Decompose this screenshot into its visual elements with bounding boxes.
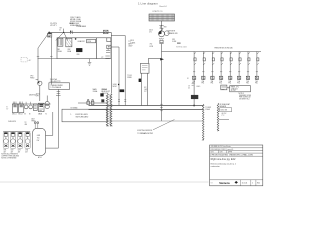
svg-text:200:5: 200:5 — [149, 29, 153, 31]
service switch — [101, 94, 104, 97]
svg-text:TO EX: TO EX — [127, 75, 131, 77]
wire: chain down — [161, 44, 163, 121]
feeder column 1 — [192, 52, 196, 81]
svg-text:40T: 40T — [11, 151, 14, 153]
transformer riser (hatched band) — [106, 94, 108, 127]
svg-text:600:5: 600:5 — [197, 86, 201, 88]
node J1 dot — [63, 32, 64, 33]
lineup meter 2 — [29, 105, 33, 109]
wire: bus B to drop2 — [203, 102, 218, 104]
fuse F1 on feeder — [103, 30, 108, 33]
svg-text:750: 750 — [37, 137, 40, 139]
breaker cell 2 (drawn-out) — [66, 38, 72, 47]
svg-text:1 Line diagram: 1 Line diagram — [138, 2, 158, 6]
lineup cell 2 — [19, 104, 24, 113]
wire: tap to relay — [148, 58, 161, 60]
page border bottom — [0, 181, 209, 183]
svg-text:DES: DES — [211, 152, 214, 154]
legend box — [62, 109, 107, 122]
svg-text:42 CKT: 42 CKT — [231, 90, 236, 92]
svg-text:GEN: GEN — [37, 135, 40, 137]
feeder column 6 — [237, 52, 241, 81]
wire: tank top right — [46, 134, 53, 136]
title bottom row divider — [210, 179, 263, 181]
meter M2 — [165, 31, 170, 36]
svg-text:52: 52 — [59, 29, 61, 31]
motor unit 3 — [17, 132, 22, 149]
motor unit 1 — [3, 132, 8, 149]
wire PT1 drop — [39, 86, 41, 102]
wire: relay drop 1 — [141, 73, 143, 105]
tick marks on drops — [118, 100, 126, 102]
motor unit 4 — [25, 132, 30, 149]
svg-text:TO REMAIN NOTE2: TO REMAIN NOTE2 — [137, 132, 153, 135]
service junction block — [102, 100, 104, 102]
svg-text:SWITCHBOARD: SWITCHBOARD — [76, 115, 89, 118]
feeder column 7 — [246, 52, 250, 81]
cable drop 2 (hatched) — [217, 103, 219, 131]
svg-text:PNL: PNL — [202, 83, 205, 85]
svg-text:PER SCHEDULE: PER SCHEDULE — [239, 97, 251, 99]
svg-text:CH4: CH4 — [25, 150, 28, 152]
lineup breaker (dark) — [38, 103, 44, 111]
title row 1 — [210, 147, 263, 149]
junction arrow on chain — [160, 58, 164, 61]
crossing ticks on chain — [160, 104, 162, 111]
wire up from transformer — [46, 96, 48, 102]
breaker (closed) on extension — [191, 95, 198, 99]
arrow to notes — [228, 87, 230, 88]
wire: drop to MV lineup — [38, 34, 48, 82]
svg-text:continuation: continuation — [211, 165, 220, 168]
service switch SW1 — [87, 101, 90, 104]
wire: bank column 1 extension — [193, 80, 195, 106]
svg-text:PNL: PNL — [246, 83, 249, 85]
svg-text:CHILLERS: CHILLERS — [8, 121, 16, 123]
wire: branch upper — [111, 36, 125, 106]
svg-text:BUS DUCT: BUS DUCT — [102, 91, 111, 93]
breaker cell 1 — [58, 38, 63, 46]
svg-text:E42: E42 — [257, 183, 260, 185]
lineup cell 1 — [12, 104, 17, 113]
svg-text:CH1: CH1 — [4, 150, 7, 152]
svg-text:CB1: CB1 — [57, 49, 60, 51]
aux dot on drop — [118, 84, 119, 85]
disconnect stack 2 — [107, 45, 111, 48]
svg-text:FUSE: FUSE — [172, 41, 176, 43]
title numbers — [240, 180, 242, 186]
node: bus junction — [193, 105, 195, 107]
junction J1 with fanout — [56, 29, 68, 41]
svg-text:40T: 40T — [18, 151, 21, 153]
svg-text:N1: N1 — [187, 78, 189, 80]
switchgear frame right — [97, 38, 111, 59]
wire: tap to distribution bank — [162, 51, 195, 53]
small equipment box — [221, 85, 227, 90]
meter aux tick — [177, 42, 181, 44]
relay cell — [87, 39, 96, 42]
feeder column 8 — [255, 52, 259, 81]
svg-text:1200A MAIN: 1200A MAIN — [76, 25, 87, 28]
disconnect stack 3 — [106, 48, 110, 52]
svg-text:COPPER THHN UNLESS: COPPER THHN UNLESS — [1, 156, 19, 158]
bus A (top) — [89, 105, 204, 107]
svg-text:EX: EX — [6, 107, 8, 109]
svg-text:NOTE 3: NOTE 3 — [239, 93, 245, 95]
relay box K1 — [141, 63, 150, 73]
svg-text:CB2: CB2 — [67, 49, 70, 51]
svg-text:40T: 40T — [25, 151, 28, 153]
svg-text:DISC SW: DISC SW — [221, 110, 228, 112]
svg-text:MCC1: MCC1 — [12, 114, 16, 116]
svg-text:51/50: 51/50 — [87, 41, 91, 43]
svg-text:PNL: PNL — [219, 83, 222, 85]
wire stub to corner — [36, 79, 38, 81]
disconnect stack 1 — [107, 38, 111, 42]
bus B (middle) — [89, 109, 204, 111]
feeder column 2 — [202, 52, 206, 81]
leader line — [153, 120, 175, 130]
title row 3 — [210, 152, 263, 154]
svg-text:MCC2: MCC2 — [18, 114, 22, 116]
disconnect stack 4 — [105, 56, 109, 58]
lineup bus wire — [12, 103, 50, 105]
wire: frame interconnect — [38, 58, 58, 60]
svg-text:UTILITY CO: UTILITY CO — [153, 11, 163, 13]
svg-text:CT: CT — [188, 86, 190, 88]
motor unit 2 — [10, 132, 15, 149]
title row 4 dark — [210, 155, 263, 157]
svg-text:2: 2 — [252, 183, 253, 185]
svg-text:TO MDP: TO MDP — [205, 107, 211, 109]
node A — [49, 32, 50, 33]
wire from S1 down-left — [50, 37, 52, 85]
svg-text:UTILITY: UTILITY — [50, 25, 57, 27]
tank valves — [34, 122, 36, 124]
svg-text:CTs: CTs — [149, 32, 152, 34]
svg-text:Sheet E4: Sheet E4 — [159, 5, 166, 8]
svg-text:4/0 CU: 4/0 CU — [222, 113, 227, 115]
fused cutout below meter — [160, 40, 163, 43]
lineup transformer — [45, 102, 49, 106]
svg-text:600AF: 600AF — [69, 22, 74, 25]
cable drop 1 (hatched) — [202, 104, 204, 140]
wire below T1 down to tank — [57, 89, 59, 148]
lineup meter 1 — [24, 105, 28, 109]
svg-text:480V MCC: 480V MCC — [29, 94, 38, 96]
svg-text:CH3: CH3 — [18, 150, 21, 152]
feeder column 3 — [211, 52, 215, 81]
disconnect box right — [220, 108, 232, 112]
main tank / generator body — [33, 128, 46, 155]
svg-text:PNL: PNL — [192, 83, 195, 85]
switchgear frame left — [57, 38, 97, 59]
future feed dashed box — [21, 58, 27, 62]
breaker cell 3 (closed) — [76, 48, 82, 51]
wire: main top feeder — [48, 31, 111, 33]
svg-text:NTS: NTS — [211, 182, 214, 184]
transformer box T1 — [49, 83, 70, 90]
svg-text:PT: PT — [102, 57, 104, 59]
wire: relay drop 2 — [147, 73, 149, 105]
instrument PT1 — [38, 81, 42, 85]
svg-text:PNL: PNL — [228, 83, 231, 85]
meter M — [159, 31, 165, 37]
utility termination structure — [149, 14, 175, 21]
svg-text:PNL: PNL — [211, 83, 214, 85]
aux device dot — [75, 38, 77, 40]
feeder column 5 — [229, 52, 233, 81]
svg-text:T2: T2 — [45, 114, 47, 116]
svg-text:TX: TX — [25, 122, 27, 124]
svg-text:PNL: PNL — [237, 83, 240, 85]
svg-text:CB3: CB3 — [76, 54, 79, 56]
feeder column 4 — [219, 52, 223, 81]
svg-text:CH2: CH2 — [11, 150, 14, 152]
ground symbol — [88, 59, 92, 66]
svg-text:EXISTING SERVICE: EXISTING SERVICE — [137, 130, 152, 132]
svg-text:FEEDERS SIZED: FEEDERS SIZED — [239, 95, 252, 97]
svg-text:3-500: 3-500 — [113, 84, 117, 86]
svg-text:CHK: CHK — [220, 152, 223, 154]
wire: motor header — [3, 131, 30, 133]
service fuse group — [91, 101, 94, 104]
svg-text:#4/0: #4/0 — [144, 89, 147, 91]
svg-text:FEEDER SECTIONS 480: FEEDER SECTIONS 480 — [215, 48, 233, 50]
title block frame — [210, 145, 263, 186]
wire: service run — [78, 102, 107, 104]
lineup cell 3 — [33, 104, 37, 111]
bus: bank top — [194, 51, 261, 53]
svg-text:40T: 40T — [4, 151, 7, 153]
fuse blob — [139, 79, 141, 82]
svg-text:MCM: MCM — [113, 86, 117, 88]
svg-text:10.2.04: 10.2.04 — [242, 183, 248, 185]
wire: tank bottom right — [46, 147, 59, 149]
switch S1 — [48, 33, 52, 37]
wire: service drop — [161, 21, 163, 31]
disconnect marks below T1 — [56, 91, 61, 95]
tie breaker (dark) between drops — [120, 89, 125, 92]
svg-text:ON SHEET E-4: ON SHEET E-4 — [239, 99, 250, 101]
bus C (lower, light) — [107, 120, 203, 122]
wire: riser A — [52, 112, 54, 135]
notes box — [230, 86, 251, 92]
svg-text:KWH MTR: KWH MTR — [168, 31, 176, 33]
meter wavy marks — [159, 38, 164, 39]
wire: riser right edge — [110, 32, 112, 93]
svg-text:Right one-line pg. E42: Right one-line pg. E42 — [211, 158, 236, 161]
svg-text:2.5": 2.5" — [144, 91, 147, 93]
stub line — [219, 118, 229, 120]
CT marks on extension — [192, 83, 194, 85]
svg-text:Siemens: Siemens — [219, 181, 230, 185]
svg-text:4:1: 4:1 — [188, 88, 190, 90]
svg-text:750: 750 — [150, 44, 153, 46]
svg-text:480: 480 — [25, 124, 28, 126]
svg-text:PNL: PNL — [255, 83, 258, 85]
svg-text:NOTED OTHERWISE: NOTED OTHERWISE — [1, 158, 16, 160]
lightning arrester — [159, 25, 163, 30]
title row 2 — [210, 149, 263, 151]
wire: branch lower — [111, 47, 119, 106]
CT pair on wire — [70, 31, 72, 34]
